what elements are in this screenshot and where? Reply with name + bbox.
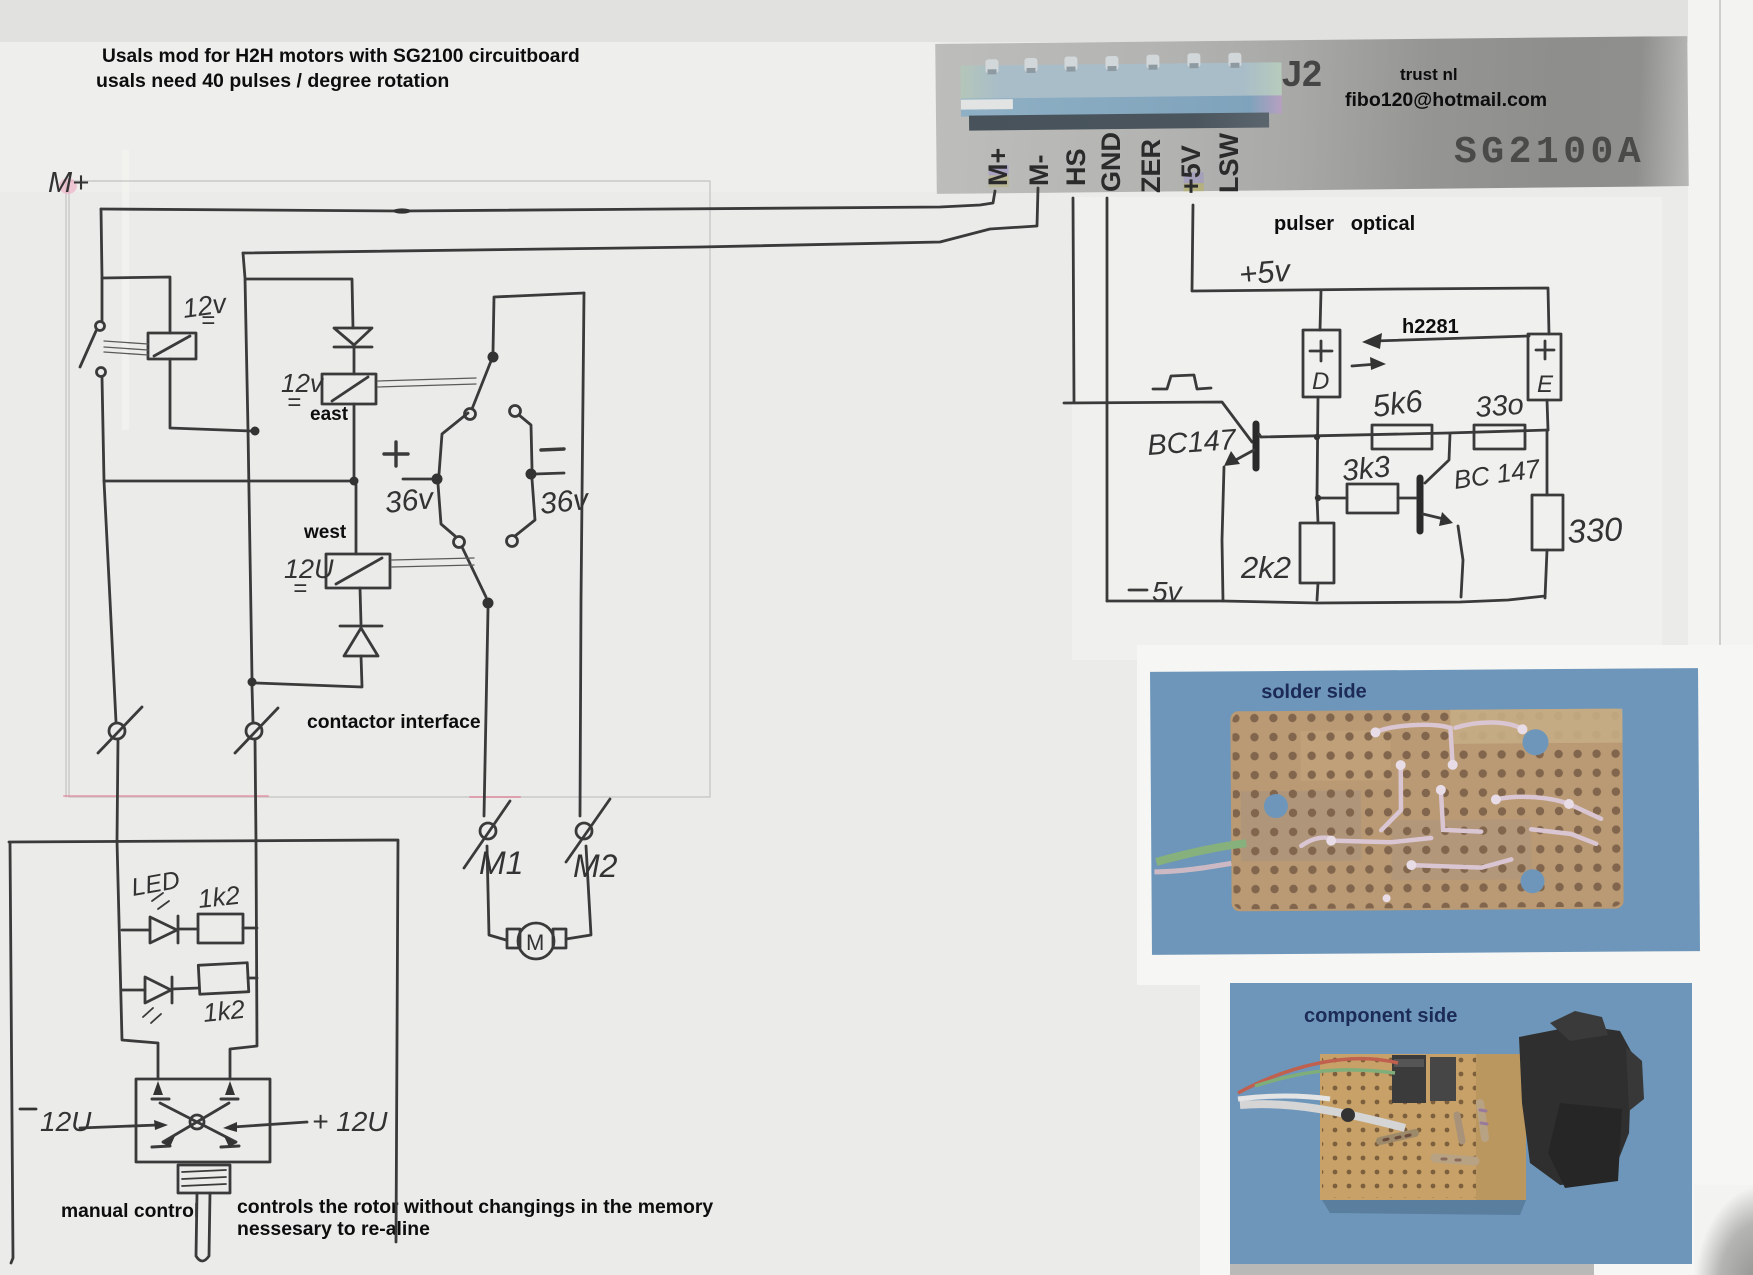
wire K3 bottom (360, 588, 361, 624)
svg-text:M: M (526, 930, 544, 955)
minus sign -5V (1129, 589, 1147, 592)
wire base Q1 (1064, 402, 1252, 442)
wire K2 bottom (353, 404, 356, 477)
svg-text:=: = (201, 307, 215, 334)
diode D2 (340, 626, 382, 656)
node M1 junction (483, 598, 494, 609)
wire -12V feed (80, 1125, 158, 1128)
svg-text:M1: M1 (479, 845, 523, 881)
pin LSW (1214, 132, 1244, 193)
svg-text:33o: 33o (1474, 389, 1525, 424)
wire +5V rail (1192, 205, 1549, 334)
handwritten labels left schematic (181, 288, 618, 955)
wire D2 to node (256, 656, 362, 687)
manual switch box (136, 1079, 270, 1162)
value -36v (538, 483, 592, 521)
arrowhead emitter Q1 (1224, 451, 1240, 466)
svg-text:1k2: 1k2 (196, 880, 241, 914)
node plus junction (432, 474, 443, 485)
scanner streak (122, 150, 129, 430)
svg-text:D: D (1312, 368, 1329, 395)
contact loop top (493, 293, 584, 352)
svg-text:+5v: +5v (1238, 253, 1293, 292)
wire to west relay (355, 485, 358, 554)
wire M- rail to connector (243, 188, 1038, 253)
value 330 top (1474, 389, 1525, 424)
arrows bottom cross (162, 1136, 237, 1147)
resistors (1380, 1103, 1487, 1161)
node M+ label (48, 167, 89, 199)
emitter Q1 (1222, 450, 1254, 601)
letter E (1537, 371, 1554, 398)
contact lever lower to M1 (462, 547, 486, 597)
pin HS (1061, 148, 1091, 186)
pin ZER (1136, 139, 1166, 193)
wire cross link (104, 480, 350, 483)
svg-text:=: = (287, 389, 301, 416)
wire vertical B (M- branch) (243, 253, 253, 723)
node D/3k3 junction (1315, 495, 1321, 501)
wire -5V rail (1107, 596, 1545, 603)
pencil frame of contactor sheet (66, 181, 710, 797)
arrow down left top (153, 1081, 235, 1095)
collector Q2 riser (1425, 434, 1450, 483)
relay linkage dashed couplers (104, 341, 476, 567)
label M1 (479, 845, 523, 881)
pin GND (1096, 132, 1126, 192)
wire below S1 (102, 377, 116, 722)
value +36v (383, 482, 437, 520)
value 1k2 lower (201, 994, 246, 1028)
linkage K2 east (378, 378, 476, 387)
linkage K3 west (392, 558, 474, 567)
wire 3k3 to D line (1318, 497, 1347, 500)
SG2100 photo top right (935, 36, 1689, 194)
pin M+ (983, 148, 1013, 186)
svg-text:3k3: 3k3 (1340, 450, 1392, 488)
terminal bolt M2 (566, 799, 610, 862)
wire +12V feed (233, 1122, 307, 1127)
svg-text:12U: 12U (40, 1106, 92, 1137)
switch S1 (80, 322, 106, 377)
scanner background bands (0, 0, 1753, 42)
junction dots (248, 208, 537, 686)
arrowheads manual switch (153, 1081, 237, 1147)
svg-text:330: 330 (1566, 510, 1624, 550)
dark connector block right (1519, 1025, 1632, 1185)
resistor 2k2 (1300, 523, 1334, 583)
wire E to 330 (1545, 430, 1547, 598)
pulser arrowheads (1224, 333, 1453, 526)
svg-text:12U: 12U (284, 554, 334, 584)
handwritten -12U +12U LED 1k2 (20, 866, 388, 1137)
arrowhead small right (1370, 357, 1386, 370)
value 5k6 (1371, 383, 1426, 424)
pin M- (1024, 155, 1054, 186)
svg-text:1k2: 1k2 (201, 994, 246, 1028)
MANUAL CONTROL AREA (9, 840, 398, 1263)
wire branch to relay K1 (102, 277, 170, 333)
value 2k2 (1240, 550, 1291, 585)
handwritten labels pulser (1146, 253, 1624, 607)
optocoupler D (1303, 330, 1340, 397)
wire M1 vertical (484, 609, 488, 816)
toggle lever (178, 1165, 230, 1261)
node minus junction (526, 469, 537, 480)
pulse waveform (1153, 375, 1211, 389)
PULSER OPTICAL SCHEMATIC (1064, 198, 1563, 603)
wire K1 bottom to node B (170, 359, 251, 431)
wire E to rail (1547, 400, 1548, 430)
transistor Q1 base bar (1253, 424, 1260, 468)
pin +5V (1176, 145, 1206, 194)
node K2 bottom junction (350, 477, 359, 486)
svg-text:BC147: BC147 (1146, 424, 1239, 462)
wire to optocoupler D (1320, 291, 1321, 330)
svg-text:M+: M+ (983, 148, 1013, 186)
emitter Q2 (1423, 514, 1463, 597)
svg-text:BC 147: BC 147 (1452, 453, 1544, 495)
wire T2 to manual control (230, 739, 257, 1079)
terminal bolt T2 (235, 708, 278, 753)
LED1 (122, 893, 198, 943)
wire M2 to motor (566, 846, 591, 939)
svg-text:E: E (1537, 371, 1554, 398)
label M2 (573, 848, 618, 884)
resistor 5k6 (1372, 425, 1432, 449)
relay K3 west coil (326, 554, 390, 588)
connector pin labels (983, 132, 1244, 194)
svg-text:HS: HS (1061, 148, 1091, 186)
plus terminal 36v (384, 413, 468, 548)
value 12U K3 (284, 554, 334, 602)
terminal bolt T1 (98, 707, 142, 753)
component side photo (1230, 983, 1692, 1264)
title text (102, 46, 580, 68)
svg-text:2k2: 2k2 (1240, 550, 1291, 585)
pulser junction dots (1314, 434, 1321, 501)
strip under component photo (1230, 1264, 1594, 1275)
wire M1 to motor (487, 846, 506, 940)
label BC147 Q1 (1146, 424, 1239, 462)
wire HS down (1073, 198, 1074, 402)
optocoupler E (1528, 334, 1561, 400)
svg-text:M+: M+ (48, 167, 89, 199)
wire left vertical from M+ rail (101, 209, 102, 321)
arrow feed right (223, 1122, 237, 1132)
value 330 right (1566, 510, 1624, 550)
svg-text:+ 12U: + 12U (312, 1106, 388, 1137)
arrowhead emitter Q2 (1439, 512, 1453, 526)
letter D (1312, 368, 1329, 395)
svg-text:GND: GND (1096, 132, 1126, 192)
svg-text:36v: 36v (538, 483, 592, 521)
node contact top junction (488, 352, 499, 363)
IC blocks (1392, 1055, 1426, 1103)
resistor 3k3 (1347, 484, 1398, 513)
linkage K1 to S1 (104, 341, 148, 355)
resistor 330 vertical (1532, 495, 1563, 550)
wires left (1238, 1059, 1398, 1093)
arrow small emit (1352, 364, 1377, 366)
svg-text:5v: 5v (1152, 576, 1184, 607)
connector J2 photo (960, 62, 1281, 100)
photo margins white (1137, 645, 1753, 985)
contact lever upper (465, 361, 533, 468)
wire T1 to manual control (117, 739, 158, 1079)
switch cross contacts (152, 1099, 239, 1147)
svg-text:M-: M- (1024, 155, 1054, 186)
wire D down through rail (1317, 397, 1318, 523)
node rail blob (393, 208, 411, 213)
resistor R1 1k2 (198, 914, 257, 943)
value 3k3 (1340, 450, 1392, 488)
pink tint on frame bottom edge (64, 796, 520, 797)
label LED (129, 866, 182, 902)
dark bottom-right corner (1694, 1185, 1753, 1275)
minus terminal 36v (507, 449, 565, 547)
arrow feed left (154, 1120, 168, 1130)
svg-text:+5V: +5V (1176, 145, 1206, 194)
svg-text:M2: M2 (573, 848, 618, 884)
wire 2k2 bottom (1317, 583, 1318, 600)
printed schematic labels (310, 404, 348, 426)
value 12v K1 (181, 288, 230, 334)
wire base Q2 stub (1398, 497, 1416, 500)
resistor 330 horizontal (1474, 425, 1525, 449)
resistor R2 1k2 (198, 963, 257, 995)
net -5V (1152, 576, 1184, 607)
node K1/B junction (251, 427, 260, 436)
pulser paper (whiter) (1072, 197, 1662, 660)
transistor Q2 base bar (1417, 478, 1424, 531)
label BC147 Q2 (1452, 453, 1544, 495)
value 12v K2 (281, 368, 325, 416)
svg-text:=: = (293, 575, 307, 602)
terminal bolt M1 (464, 801, 510, 868)
motor M (507, 923, 566, 959)
manual box outline (9, 840, 398, 1263)
photo print texts (1282, 53, 1322, 95)
wire east branch (246, 279, 353, 328)
wire M+ rail to connector (101, 191, 995, 211)
wire M2 vertical (580, 293, 584, 816)
LED2 (122, 977, 199, 1023)
relay K1 coil 12v (148, 333, 196, 359)
svg-text:36v: 36v (383, 482, 437, 520)
svg-text:LSW: LSW (1214, 132, 1244, 193)
arrowhead h2281 left (1362, 333, 1382, 349)
wire collector rail (1259, 430, 1548, 437)
value 1k2 upper (196, 880, 241, 914)
net +5V (1238, 253, 1293, 292)
relay K2 east coil (322, 374, 376, 404)
svg-text:LED: LED (129, 866, 182, 902)
svg-text:5k6: 5k6 (1371, 383, 1426, 424)
shadow under board (1322, 1200, 1526, 1215)
diode D1 (334, 328, 372, 347)
node D2/B junction (248, 678, 257, 687)
wire D1 to east relay (353, 348, 356, 374)
node D/rail junction (1314, 434, 1320, 440)
wire GND down (1106, 198, 1109, 601)
svg-text:ZER: ZER (1136, 139, 1166, 193)
arrow h2281 (1374, 336, 1529, 341)
motor letter (526, 930, 544, 955)
solder side photo (1150, 668, 1700, 955)
